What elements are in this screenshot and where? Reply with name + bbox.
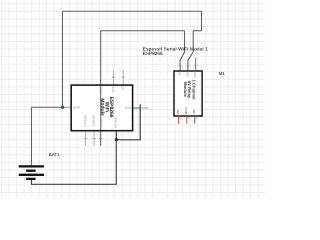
wire through ESP body: [100, 31, 102, 146]
label pin VCC: [98, 86, 102, 93]
label pin GPIO0: [99, 118, 103, 128]
svg-text:GPIO0: GPIO0: [99, 118, 103, 128]
node junction battery+/GND: [61, 106, 64, 109]
wire junction to ESP right pin: [116, 104, 140, 140]
pin relay COM (bottom red): [186, 116, 188, 124]
label pin IN: [178, 72, 182, 75]
label pin GPIO16: [114, 117, 118, 129]
ESP8266 module U1 body fill: [71, 85, 132, 131]
label pin GPIO13: [83, 115, 87, 127]
pin relay NC (bottom red): [194, 116, 196, 124]
svg-text:GPIO16: GPIO16: [114, 117, 118, 129]
svg-text:DC-: DC-: [185, 72, 189, 77]
label pin 3V3: [111, 86, 115, 92]
pin ESP GPIO13 (bottom stub): [84, 131, 88, 146]
label pin NO: [176, 110, 180, 115]
relay module M1 body fill: [174, 71, 202, 116]
pin ESP GND (left): [63, 106, 72, 108]
label pin GPIO15: [92, 115, 96, 127]
svg-text:ESP8266: ESP8266: [143, 51, 163, 56]
svg-text:GPIO13: GPIO13: [83, 115, 87, 127]
wire ESP VCC rail: [101, 30, 185, 32]
svg-text:DC+: DC+: [193, 72, 197, 78]
wire battery+ up: [30, 107, 32, 166]
svg-text:NO: NO: [176, 110, 180, 115]
svg-text:1 Channel5V RelayModule: 1 Channel5V RelayModule: [183, 79, 197, 99]
svg-text:M1: M1: [219, 71, 226, 76]
wire top rail: [63, 10, 202, 12]
pin relay DC- tick: [186, 65, 191, 67]
svg-text:VCC: VCC: [98, 86, 102, 93]
pin ESP GPIO15 (bottom stub): [92, 131, 96, 146]
text ESP8266 WiFi Module (rotated): [99, 96, 114, 117]
svg-text:GND: GND: [73, 106, 81, 110]
svg-text:GPIO15: GPIO15: [92, 115, 96, 127]
pin relay DC+ (red stub): [195, 58, 197, 71]
label pin EN: [121, 86, 125, 91]
pin relay NO (bottom red): [178, 116, 180, 124]
svg-text:RXD: RXD: [125, 106, 132, 110]
svg-text:IN: IN: [178, 72, 182, 75]
svg-text:3V3: 3V3: [111, 86, 115, 92]
label pin DC-: [185, 72, 189, 77]
wire battery+ to ESP GND node: [31, 106, 62, 108]
svg-text:BAT1: BAT1: [49, 152, 60, 157]
svg-text:EN: EN: [121, 86, 125, 91]
pin ESP GPIO0 tick: [99, 138, 103, 140]
pin relay IN tick: [178, 65, 183, 67]
svg-text:COM: COM: [184, 107, 188, 115]
pin ESP 3V3 (top stub): [112, 70, 116, 85]
node junction battery-/GPIO: [115, 138, 118, 141]
wire right drop: [201, 11, 203, 31]
battery BAT1: [19, 165, 44, 167]
wire to relay DC-: [188, 31, 202, 71]
label pin DC+: [193, 72, 197, 78]
wire node up left riser: [62, 11, 64, 107]
label pin NC: [192, 110, 196, 115]
text 1 Channel 5V Relay Module (rotated): [183, 79, 197, 99]
label pin COM: [184, 107, 188, 115]
ESP8266 module U1 outline: [71, 85, 132, 131]
relay module M1 outline: [174, 71, 202, 116]
wire battery- bottom run: [31, 140, 116, 185]
pin ESP EN (top stub): [121, 70, 125, 85]
pin ESP RXD (right): [133, 107, 141, 109]
wire junction to ESP bottom pin: [115, 131, 117, 140]
wire to relay IN: [180, 31, 185, 71]
